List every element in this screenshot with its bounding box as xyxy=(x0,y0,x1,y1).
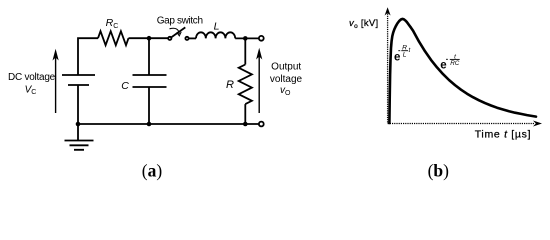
gap switch blade xyxy=(171,27,185,37)
svg-text:RC: RC xyxy=(106,17,119,30)
wire capacitor branch lower xyxy=(148,87,150,124)
DC source top plate xyxy=(62,74,95,76)
resistor RC xyxy=(98,31,129,45)
svg-text:L: L xyxy=(403,51,407,58)
svg-text:Output: Output xyxy=(271,62,301,73)
svg-text:L: L xyxy=(214,20,220,32)
wire capacitor branch upper xyxy=(148,38,150,75)
node junction dot top of C branch xyxy=(147,36,152,41)
svg-text:DC voltage: DC voltage xyxy=(8,72,56,83)
arrow VC xyxy=(55,57,57,113)
svg-text:e: e xyxy=(440,60,446,72)
output terminal top circle xyxy=(259,36,264,41)
graph x-axis dotted xyxy=(388,123,534,125)
ground xyxy=(65,141,94,150)
svg-text:voltage: voltage xyxy=(270,74,303,85)
arrow output voltage head xyxy=(256,48,262,60)
inductor L xyxy=(196,32,235,38)
svg-text:e: e xyxy=(394,52,400,64)
node junction dot bottom of R branch xyxy=(243,122,248,127)
svg-text:Time t [µs]: Time t [µs] xyxy=(475,128,532,140)
wire inductor to terminal xyxy=(235,37,259,39)
svg-text:VC: VC xyxy=(25,84,37,96)
gap switch closing arrow arc xyxy=(170,28,180,34)
wire RC to switch xyxy=(129,37,169,39)
svg-text:t: t xyxy=(409,47,412,54)
capacitor C top plate xyxy=(133,74,167,76)
output terminal bottom circle xyxy=(259,122,264,127)
svg-text:RC: RC xyxy=(450,60,460,67)
wire switch to inductor xyxy=(189,37,196,39)
graph y-axis dotted xyxy=(387,13,389,123)
svg-text:R: R xyxy=(226,79,234,91)
arrow output voltage xyxy=(258,56,260,113)
svg-text:vo [kV]: vo [kV] xyxy=(349,18,379,30)
svg-text:(b): (b) xyxy=(428,161,450,181)
resistor R xyxy=(239,65,252,105)
wire R branch lower xyxy=(244,104,246,124)
capacitor C bottom plate xyxy=(133,86,167,88)
svg-text:Gap switch: Gap switch xyxy=(157,16,203,27)
svg-text:(a): (a) xyxy=(142,161,163,181)
svg-text:vO: vO xyxy=(280,85,291,97)
gap switch arrowhead xyxy=(177,32,181,36)
DC source bottom plate xyxy=(68,84,89,86)
graph y-axis arrowhead xyxy=(385,7,391,15)
graph x-axis arrowhead xyxy=(533,121,542,127)
node junction dot top of R branch xyxy=(243,36,248,41)
node junction dot bottom of C branch xyxy=(147,122,152,127)
arrow VC head xyxy=(53,49,59,61)
node junction dot bottom-left xyxy=(76,122,81,127)
wire bottom xyxy=(78,123,259,125)
wire DC source to ground xyxy=(77,85,79,141)
wire R branch upper xyxy=(244,38,246,64)
gap switch left contact circle xyxy=(168,37,171,40)
graph curve xyxy=(389,19,536,123)
wire left vertical and top-left segment xyxy=(78,38,98,75)
svg-text:C: C xyxy=(121,80,129,92)
gap switch right contact circle xyxy=(185,37,188,40)
